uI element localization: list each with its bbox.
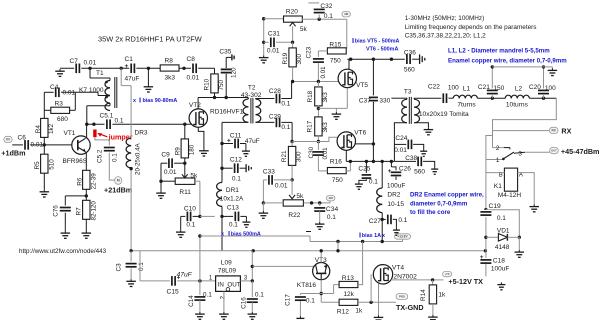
svg-text:R22: R22 bbox=[288, 212, 300, 219]
wire VT6 source to y161.4 bbox=[346, 150, 394, 163]
svg-text:510: 510 bbox=[49, 159, 56, 170]
measure tag near C32 bbox=[342, 11, 351, 17]
ground C27 bbox=[393, 228, 400, 235]
svg-text:L1, L2 - Diameter mandrel 5-5,: L1, L2 - Diameter mandrel 5-5,5mm bbox=[448, 48, 550, 55]
capacitor C35 (trimmer) bbox=[219, 49, 237, 98]
svg-text:750: 750 bbox=[332, 177, 343, 184]
svg-text:bias VT5 - 500mA: bias VT5 - 500mA bbox=[355, 39, 400, 45]
svg-text:3M: 3M bbox=[344, 12, 349, 16]
resistor R4 bbox=[35, 118, 55, 137]
wire VT5 drain row y59.2 bbox=[347, 58, 417, 61]
port RX bbox=[549, 126, 571, 135]
svg-text:DR3: DR3 bbox=[135, 130, 148, 137]
svg-text:750: 750 bbox=[218, 79, 225, 90]
svg-text:to fill the core: to fill the core bbox=[410, 209, 451, 216]
svg-text:12k: 12k bbox=[343, 291, 354, 298]
wire VT5 drain stub bbox=[348, 59, 350, 69]
resistor R15 bbox=[318, 41, 346, 64]
wire jumper to C5.2 bbox=[95, 137, 115, 180]
svg-text:C12: C12 bbox=[230, 156, 242, 163]
note L1 L2 blue text bbox=[448, 48, 567, 65]
wire R11 right down to C10 bbox=[195, 181, 200, 216]
svg-text:0.1: 0.1 bbox=[306, 297, 315, 304]
wire K1 coil leads bbox=[486, 173, 534, 205]
node R8-C8 bbox=[182, 67, 185, 70]
svg-text:5k: 5k bbox=[296, 193, 304, 200]
capacitor C24 bbox=[394, 135, 424, 154]
port TX-GND bbox=[396, 294, 424, 312]
svg-text:0.1: 0.1 bbox=[232, 175, 241, 182]
transformer T3 bbox=[391, 88, 469, 161]
svg-text:5k: 5k bbox=[190, 172, 198, 179]
svg-text:C19: C19 bbox=[489, 203, 502, 210]
title text bbox=[98, 35, 202, 44]
svg-text:BFR96S: BFR96S bbox=[63, 158, 88, 165]
capacitor C37 between drains bbox=[359, 59, 391, 161]
ground filter top bbox=[548, 68, 558, 75]
capacitor C8 bbox=[187, 56, 200, 82]
svg-text:A: A bbox=[519, 172, 523, 178]
svg-text:C8: C8 bbox=[187, 56, 196, 63]
svg-text:0.1: 0.1 bbox=[281, 124, 290, 131]
wire x200 bias feed bbox=[198, 236, 201, 283]
svg-text:R11: R11 bbox=[179, 189, 191, 196]
svg-text:1k: 1k bbox=[355, 307, 363, 314]
ground below C10 bbox=[176, 216, 186, 237]
svg-text:M4-12H: M4-12H bbox=[498, 192, 521, 199]
resistor R16 bbox=[318, 158, 350, 184]
capacitor C5.2 bbox=[97, 146, 119, 164]
wire VT1 emitter chain bbox=[85, 153, 87, 231]
svg-text:R13: R13 bbox=[342, 275, 354, 282]
wire VT3 top to rail bbox=[320, 249, 323, 263]
svg-text:C28: C28 bbox=[269, 88, 281, 95]
ground below +5-12V TX bbox=[497, 282, 505, 289]
capacitor C1 bbox=[125, 56, 140, 83]
resistor R21 bbox=[281, 142, 303, 182]
svg-text:0.01: 0.01 bbox=[394, 147, 407, 154]
svg-text:C11: C11 bbox=[230, 132, 242, 139]
resistor R3 bbox=[51, 101, 70, 124]
svg-text:300: 300 bbox=[296, 53, 303, 64]
capacitor C19 bbox=[480, 203, 506, 222]
svg-text:3M: 3M bbox=[329, 196, 334, 200]
measure point +21dBm bbox=[104, 177, 132, 195]
capacitor C11 47uF bbox=[220, 132, 259, 149]
svg-text:100: 100 bbox=[448, 84, 459, 91]
wire source/ground row y108.4 bbox=[317, 88, 348, 117]
svg-text:C38: C38 bbox=[405, 155, 417, 162]
ground C25 bbox=[355, 182, 363, 189]
svg-text:VT6 - 500mA: VT6 - 500mA bbox=[366, 47, 398, 53]
resistor R18 bbox=[307, 82, 329, 106]
ground VT4 source bbox=[374, 315, 384, 320]
svg-text:K7 1000: K7 1000 bbox=[79, 87, 104, 94]
svg-text:TX-GND: TX-GND bbox=[396, 303, 424, 312]
svg-text:+1dBm: +1dBm bbox=[1, 149, 25, 158]
svg-text:3k3: 3k3 bbox=[165, 75, 176, 82]
label T1 core K7 1000 bbox=[79, 87, 104, 94]
wire T2 left bottom to C11 column bbox=[221, 122, 223, 143]
svg-text:4148: 4148 bbox=[495, 244, 510, 251]
svg-text:1: 1 bbox=[496, 157, 500, 164]
svg-text:560: 560 bbox=[404, 66, 415, 73]
ground VT5 source bbox=[332, 112, 342, 119]
svg-text:2: 2 bbox=[496, 145, 500, 152]
capacitor C30 bbox=[308, 142, 329, 171]
relay contact arm pin 1 bbox=[486, 152, 514, 164]
capacitor C76 bbox=[52, 205, 71, 217]
ground K1 A side bbox=[529, 204, 539, 211]
svg-text:VT4: VT4 bbox=[392, 264, 405, 271]
svg-text:C26: C26 bbox=[399, 165, 411, 172]
wire VT6 drain to C37 bbox=[355, 142, 375, 145]
ground R14 bbox=[428, 315, 438, 320]
capacitor C6 bbox=[18, 135, 44, 150]
input port +1dBm bbox=[1, 136, 25, 157]
svg-text:R19: R19 bbox=[282, 52, 289, 64]
ground at C7 left bbox=[55, 69, 65, 76]
ground C3 bbox=[126, 279, 136, 286]
wire VT1 collector bbox=[86, 124, 88, 137]
wire rail down x140 to regulator input bbox=[140, 251, 216, 281]
svg-text:C7: C7 bbox=[70, 58, 79, 65]
svg-text:R10: R10 bbox=[203, 78, 210, 90]
capacitor C32 bbox=[314, 3, 334, 20]
capacitor C13 bbox=[222, 204, 246, 228]
resistor R9 bbox=[175, 139, 196, 158]
MOSFET VT4 2N7002 bbox=[371, 264, 417, 302]
wire VT4 source bbox=[378, 283, 380, 315]
svg-text:T2: T2 bbox=[248, 85, 256, 92]
svg-text:IN: IN bbox=[6, 138, 10, 142]
ground C34 bbox=[315, 222, 325, 229]
port output +45-47dBm bbox=[550, 147, 600, 156]
svg-text:VT1: VT1 bbox=[64, 130, 76, 137]
capacitor C17 bbox=[284, 294, 333, 317]
capacitor C4 bbox=[50, 84, 76, 97]
capacitor C10 bbox=[181, 205, 202, 228]
svg-text:10-15: 10-15 bbox=[387, 201, 404, 208]
svg-text:2N7002: 2N7002 bbox=[393, 273, 417, 280]
resistor R8 bbox=[160, 58, 179, 82]
svg-text:+: + bbox=[480, 254, 484, 261]
svg-text:0.01: 0.01 bbox=[267, 47, 280, 54]
svg-text:C22: C22 bbox=[428, 83, 440, 90]
svg-text:+: + bbox=[125, 63, 129, 70]
svg-text:150: 150 bbox=[493, 85, 504, 92]
svg-text:0.1: 0.1 bbox=[255, 291, 264, 298]
svg-text:0.1: 0.1 bbox=[138, 262, 145, 271]
capacitor C27 bbox=[369, 215, 408, 228]
svg-text:http://www.ut2fw.com/node/443: http://www.ut2fw.com/node/443 bbox=[19, 248, 107, 255]
svg-text:T1: T1 bbox=[96, 70, 104, 77]
capacitor C25 bbox=[358, 161, 378, 185]
svg-text:I: I bbox=[139, 96, 141, 105]
resistor R17 bbox=[306, 117, 329, 136]
svg-text:+13.8V: +13.8V bbox=[397, 235, 408, 239]
svg-text:100uF: 100uF bbox=[491, 265, 509, 272]
svg-text:C9: C9 bbox=[161, 152, 170, 159]
ground C11 bbox=[242, 149, 250, 156]
wire input to VT1 base bbox=[12, 144, 72, 146]
svg-text:C4: C4 bbox=[50, 84, 59, 91]
potentiometer R22 5k bbox=[283, 180, 304, 219]
ground below C76 bbox=[61, 231, 71, 238]
svg-text:C23: C23 bbox=[306, 46, 313, 58]
svg-text:43-302: 43-302 bbox=[241, 92, 262, 99]
svg-text:C33: C33 bbox=[263, 168, 275, 175]
svg-text:M: M bbox=[117, 179, 120, 183]
ground C12 bbox=[244, 164, 251, 172]
ground C36 right bbox=[417, 54, 424, 64]
capacitor C15 47uF bbox=[167, 271, 193, 295]
wire regulator output bbox=[240, 251, 254, 283]
url text bbox=[19, 248, 107, 255]
svg-text:R9: R9 bbox=[175, 147, 182, 156]
svg-text:7turns: 7turns bbox=[457, 101, 476, 108]
svg-text:3k3: 3k3 bbox=[322, 122, 329, 133]
svg-text:0.1: 0.1 bbox=[281, 100, 290, 107]
svg-text:R20: R20 bbox=[286, 8, 298, 15]
svg-text:T3: T3 bbox=[404, 88, 412, 95]
capacitor C5.1 bbox=[100, 113, 124, 130]
MOSFET VT2 RD16HVF1 bbox=[189, 102, 244, 127]
node VT1 base bbox=[43, 143, 46, 146]
svg-text:C30: C30 bbox=[308, 146, 315, 158]
wire R10 bottom bbox=[214, 93, 216, 98]
svg-text:22-39: 22-39 bbox=[90, 173, 97, 190]
wire VT3 bottom bbox=[320, 280, 323, 303]
wire feedback column x44 bbox=[43, 92, 45, 189]
svg-text:R17: R17 bbox=[306, 120, 313, 132]
resistor R7 bbox=[76, 200, 98, 220]
wire +13.8V rail y250.8 bbox=[129, 249, 487, 252]
svg-text:R8: R8 bbox=[165, 58, 174, 65]
svg-text:78L09: 78L09 bbox=[218, 267, 236, 274]
svg-text:L1: L1 bbox=[463, 85, 471, 92]
ground below R5 bbox=[40, 190, 50, 197]
svg-text:0.1: 0.1 bbox=[369, 178, 378, 185]
svg-text:VT5: VT5 bbox=[356, 82, 368, 89]
svg-text:RD16HVF1: RD16HVF1 bbox=[210, 109, 244, 116]
wire R19 to VT5 gate node bbox=[292, 67, 294, 82]
ground T3 secondary bbox=[424, 127, 434, 134]
svg-text:10x1.2A: 10x1.2A bbox=[220, 195, 244, 202]
svg-text:R5: R5 bbox=[34, 161, 41, 170]
inductor DR3 bbox=[126, 130, 148, 176]
wire output row y98.2 bbox=[414, 97, 556, 100]
svg-text:C34: C34 bbox=[326, 206, 339, 213]
ground R22 left bbox=[259, 203, 269, 218]
svg-text:KT816: KT816 bbox=[297, 282, 317, 289]
svg-text:L2: L2 bbox=[515, 85, 523, 92]
jumper (red) bbox=[93, 130, 133, 142]
ground C13 bbox=[242, 220, 250, 227]
svg-text:0.01: 0.01 bbox=[63, 90, 76, 97]
capacitor C38 bbox=[394, 155, 434, 176]
wire DR1 bottom to +13.8 rail bbox=[220, 206, 223, 250]
wire x263 left bias rail bbox=[262, 17, 265, 55]
svg-text:R16: R16 bbox=[330, 158, 342, 165]
svg-text:C32: C32 bbox=[320, 3, 332, 10]
capacitor C36 bbox=[404, 49, 416, 73]
wire VT6 gate row y141.5 bbox=[290, 135, 338, 143]
ground C24 bbox=[420, 149, 427, 156]
svg-text:C20: C20 bbox=[529, 84, 541, 91]
svg-text:DR2: DR2 bbox=[387, 191, 400, 198]
svg-text:Limiting frequency depends on: Limiting frequency depends on the parame… bbox=[405, 24, 537, 31]
svg-text:x: x bbox=[133, 98, 136, 104]
svg-text:3: 3 bbox=[518, 150, 522, 157]
svg-text:0.1: 0.1 bbox=[229, 221, 238, 228]
diode VD1 4148 bbox=[486, 227, 519, 251]
transformer T1 bbox=[87, 70, 117, 124]
svg-text:0.1: 0.1 bbox=[398, 217, 407, 224]
svg-text:RX: RX bbox=[561, 126, 571, 135]
svg-text:C1: C1 bbox=[125, 56, 134, 63]
capacitor C33 bbox=[263, 168, 292, 203]
wire R9 bottom node bbox=[173, 158, 187, 165]
note Ibias VT1 blue bbox=[133, 96, 177, 105]
svg-text:1k: 1k bbox=[438, 291, 446, 298]
tag +TX and label bbox=[443, 271, 484, 286]
svg-text:47uF: 47uF bbox=[177, 271, 193, 278]
resistor R13 bbox=[334, 242, 363, 299]
capacitor C28 bbox=[269, 82, 292, 108]
svg-text:C24: C24 bbox=[395, 135, 407, 142]
potentiometer R20 5k bbox=[264, 8, 308, 42]
svg-text:0.01: 0.01 bbox=[164, 169, 177, 176]
wire RX branch bbox=[493, 130, 550, 132]
note Ibias VT5 VT6 blue bbox=[352, 36, 400, 53]
wire VT2 drain row y97.5 bbox=[198, 96, 248, 109]
potentiometer R11 5k bbox=[175, 163, 198, 196]
svg-text:PRD: PRD bbox=[399, 295, 405, 299]
svg-text:IN: IN bbox=[218, 281, 224, 288]
capacitor C29 bbox=[269, 113, 292, 141]
svg-text:1k2: 1k2 bbox=[48, 123, 55, 134]
node supply junctions bbox=[88, 67, 123, 70]
note DR2 blue bbox=[410, 192, 484, 217]
wire R20 to C32 and R15 bbox=[302, 3, 347, 49]
capacitor C18 100uF bbox=[480, 251, 509, 277]
svg-text:+21dBm: +21dBm bbox=[104, 185, 132, 194]
wire C9 left to R11 bbox=[159, 163, 175, 183]
svg-text:C36: C36 bbox=[404, 49, 416, 56]
note Ibias 500mA blue bbox=[221, 229, 261, 238]
svg-text:0.1: 0.1 bbox=[115, 118, 124, 125]
resistor R12 bbox=[321, 299, 396, 315]
svg-text:VD1: VD1 bbox=[497, 227, 510, 234]
wire relay left column x485.9 bbox=[484, 136, 492, 251]
svg-text:10x20x19 Tomita: 10x20x19 Tomita bbox=[419, 111, 469, 118]
svg-text:180: 180 bbox=[188, 144, 195, 155]
svg-text:R18: R18 bbox=[307, 90, 314, 102]
svg-text:OUT: OUT bbox=[227, 281, 240, 288]
svg-text:C27: C27 bbox=[369, 218, 381, 225]
svg-text:VT2: VT2 bbox=[189, 102, 201, 109]
wire VT4 drain bbox=[391, 278, 444, 281]
svg-text:0.01: 0.01 bbox=[84, 60, 97, 67]
transistor VT3 KT816 bbox=[297, 257, 330, 289]
svg-text:C25: C25 bbox=[358, 165, 370, 172]
svg-text:47uF: 47uF bbox=[125, 76, 140, 83]
svg-text:C16: C16 bbox=[241, 297, 248, 309]
svg-text:1-30MHz (50MHz; 100MHz): 1-30MHz (50MHz; 100MHz) bbox=[405, 15, 485, 22]
svg-text:C31: C31 bbox=[268, 30, 280, 37]
wire bias feed y236-y241.5 bbox=[200, 232, 403, 253]
note Ibias 1A blue bbox=[359, 230, 385, 239]
ground VD1 right bbox=[515, 237, 525, 257]
svg-text:100: 100 bbox=[545, 85, 556, 92]
svg-text:0.1: 0.1 bbox=[497, 215, 506, 222]
svg-text:0.01: 0.01 bbox=[187, 75, 200, 82]
resistor R5 bbox=[34, 154, 55, 173]
svg-text:VT6: VT6 bbox=[354, 129, 366, 136]
svg-text:bias 90-80mA: bias 90-80mA bbox=[143, 98, 178, 104]
ground C16 bbox=[248, 312, 257, 319]
capacitor C20 bbox=[529, 65, 556, 98]
svg-text:jumper: jumper bbox=[108, 132, 133, 141]
svg-text:R21: R21 bbox=[281, 150, 288, 162]
svg-text:0.1: 0.1 bbox=[112, 153, 119, 162]
svg-text:C18: C18 bbox=[493, 257, 505, 264]
svg-text:C35,36,37,38,22,21,20; L1,2: C35,36,37,38,22,21,20; L1,2 bbox=[405, 33, 486, 40]
svg-text:10turns: 10turns bbox=[506, 101, 529, 108]
wire C10 node to C13 row bbox=[200, 215, 215, 217]
capacitor C31 bbox=[264, 30, 293, 54]
node R6-R7 bbox=[85, 194, 88, 197]
svg-text:C17: C17 bbox=[284, 294, 291, 306]
capacitor C12 bbox=[220, 144, 244, 183]
capacitor C7 bbox=[70, 58, 97, 73]
capacitor C23 bbox=[306, 46, 327, 81]
node x200 y236 bbox=[198, 234, 201, 237]
svg-text:R12: R12 bbox=[337, 308, 349, 315]
capacitor C34 bbox=[314, 203, 338, 222]
ground C38 bbox=[431, 167, 438, 174]
ground x263 bbox=[259, 55, 269, 62]
svg-text:0.1: 0.1 bbox=[203, 291, 212, 298]
svg-text:I: I bbox=[352, 36, 354, 45]
ground at C1/R8 node bbox=[144, 67, 154, 92]
wire R3/C4 feedback bbox=[44, 92, 110, 110]
svg-text:0.01: 0.01 bbox=[31, 142, 44, 149]
MOSFET VT6 bbox=[337, 129, 367, 150]
resistor R19 bbox=[282, 48, 303, 67]
svg-text:+: + bbox=[388, 168, 392, 175]
regulator L09 78L09 bbox=[209, 259, 248, 299]
svg-text:C5.2: C5.2 bbox=[97, 149, 104, 163]
ground C17 bbox=[296, 316, 304, 320]
svg-text:C6: C6 bbox=[18, 135, 27, 142]
resistor R10 bbox=[203, 74, 225, 93]
node R19 top bbox=[291, 41, 294, 48]
resistor R14 bbox=[420, 280, 446, 315]
wire output to relay bbox=[493, 98, 557, 147]
svg-text:3k3: 3k3 bbox=[322, 92, 329, 103]
capacitor C21 bbox=[478, 65, 505, 98]
svg-text:+5-12V TX: +5-12V TX bbox=[448, 277, 483, 286]
wire regulator ground pin bbox=[223, 291, 225, 312]
svg-text:R3: R3 bbox=[55, 101, 64, 108]
svg-text:L09: L09 bbox=[221, 259, 232, 266]
inductor L1 bbox=[453, 85, 477, 108]
svg-text:0.01: 0.01 bbox=[275, 182, 288, 189]
svg-text:R6: R6 bbox=[77, 177, 84, 186]
svg-text:I: I bbox=[359, 230, 361, 239]
